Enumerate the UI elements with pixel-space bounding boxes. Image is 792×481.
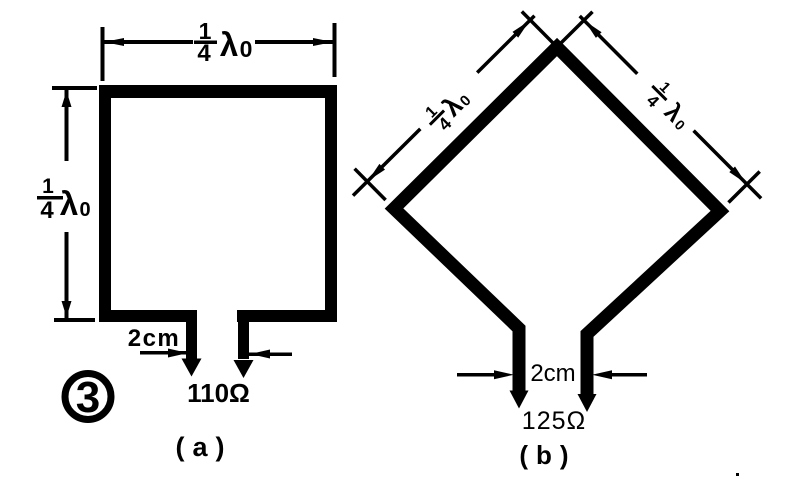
svg-text:(a): (a) bbox=[176, 432, 233, 462]
svg-text:1: 1 bbox=[42, 175, 54, 198]
svg-text:0: 0 bbox=[79, 199, 90, 221]
svg-text:4: 4 bbox=[643, 91, 664, 112]
svg-text:λ: λ bbox=[60, 185, 78, 222]
svg-text:4: 4 bbox=[40, 197, 54, 224]
svg-text:2cm: 2cm bbox=[530, 360, 575, 387]
svg-text:3: 3 bbox=[76, 373, 100, 422]
svg-text:λ: λ bbox=[220, 26, 238, 63]
svg-text:110Ω: 110Ω bbox=[187, 378, 250, 408]
svg-text:125Ω: 125Ω bbox=[522, 407, 586, 435]
svg-text:0: 0 bbox=[240, 36, 253, 62]
svg-text:(b): (b) bbox=[519, 440, 576, 470]
svg-text:2cm: 2cm bbox=[128, 325, 181, 352]
svg-text:4: 4 bbox=[197, 40, 211, 67]
